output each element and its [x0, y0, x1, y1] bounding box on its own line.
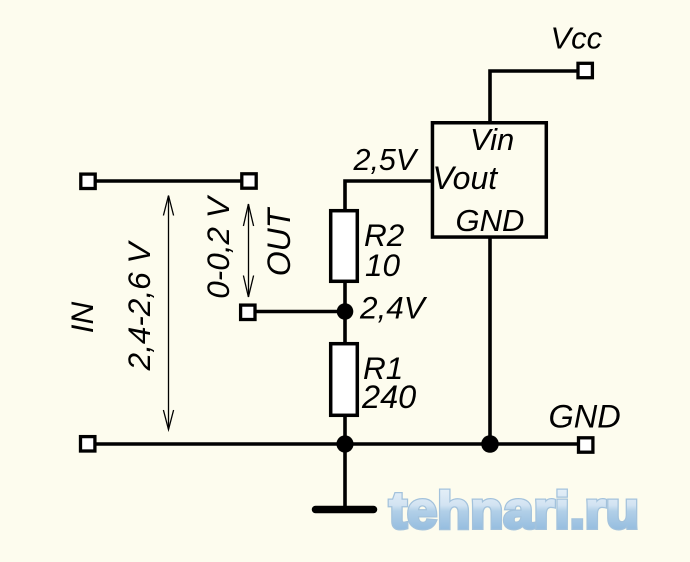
svg-text:GND: GND — [549, 399, 621, 435]
terminal bottom left — [81, 437, 95, 451]
svg-text:Vin: Vin — [470, 122, 514, 157]
resistor R1 — [331, 344, 358, 416]
svg-text:OUT: OUT — [261, 206, 297, 276]
wire bottom GND horizontal — [88, 442, 586, 446]
arrow range IN 2,4-2,6V — [163, 196, 173, 430]
wire top IN horizontal — [88, 179, 248, 183]
svg-text:10: 10 — [365, 247, 401, 283]
svg-text:0-0,2 V: 0-0,2 V — [200, 194, 236, 299]
wire OUT node horizontal — [249, 310, 345, 314]
svg-text:Vcc: Vcc — [551, 21, 603, 56]
terminal Vcc — [578, 63, 592, 77]
terminal IN top right — [242, 174, 256, 188]
svg-text:IN: IN — [64, 301, 100, 333]
node bottom junction R1 — [336, 435, 353, 452]
terminal IN top left — [81, 174, 95, 188]
arrow range OUT 0-0,2V — [243, 204, 253, 297]
wire GND pin vertical — [488, 238, 492, 444]
wire R2 bottom to R1 top — [343, 282, 347, 343]
svg-text:Vout: Vout — [433, 160, 499, 196]
wire Vcc — [490, 71, 578, 122]
node 2,4V junction — [337, 303, 354, 320]
regulator U1 box (Vin/Vout/GND) — [432, 123, 546, 237]
wire Vout to R2 top — [345, 181, 431, 210]
node bottom junction GND pin — [481, 435, 499, 453]
terminal OUT — [241, 305, 255, 319]
resistor R2 — [331, 211, 358, 282]
svg-text:2,4-2,6 V: 2,4-2,6 V — [121, 240, 157, 372]
terminal GND right — [579, 438, 593, 452]
svg-text:tehnari.ru: tehnari.ru — [389, 482, 639, 540]
svg-text:2,5V: 2,5V — [353, 143, 419, 177]
ground — [316, 506, 374, 514]
svg-text:2,4V: 2,4V — [359, 290, 428, 326]
svg-text:GND: GND — [456, 203, 525, 238]
wire R1 bottom lead — [343, 416, 347, 444]
wire ground lead — [343, 444, 347, 506]
svg-text:240: 240 — [361, 379, 416, 415]
